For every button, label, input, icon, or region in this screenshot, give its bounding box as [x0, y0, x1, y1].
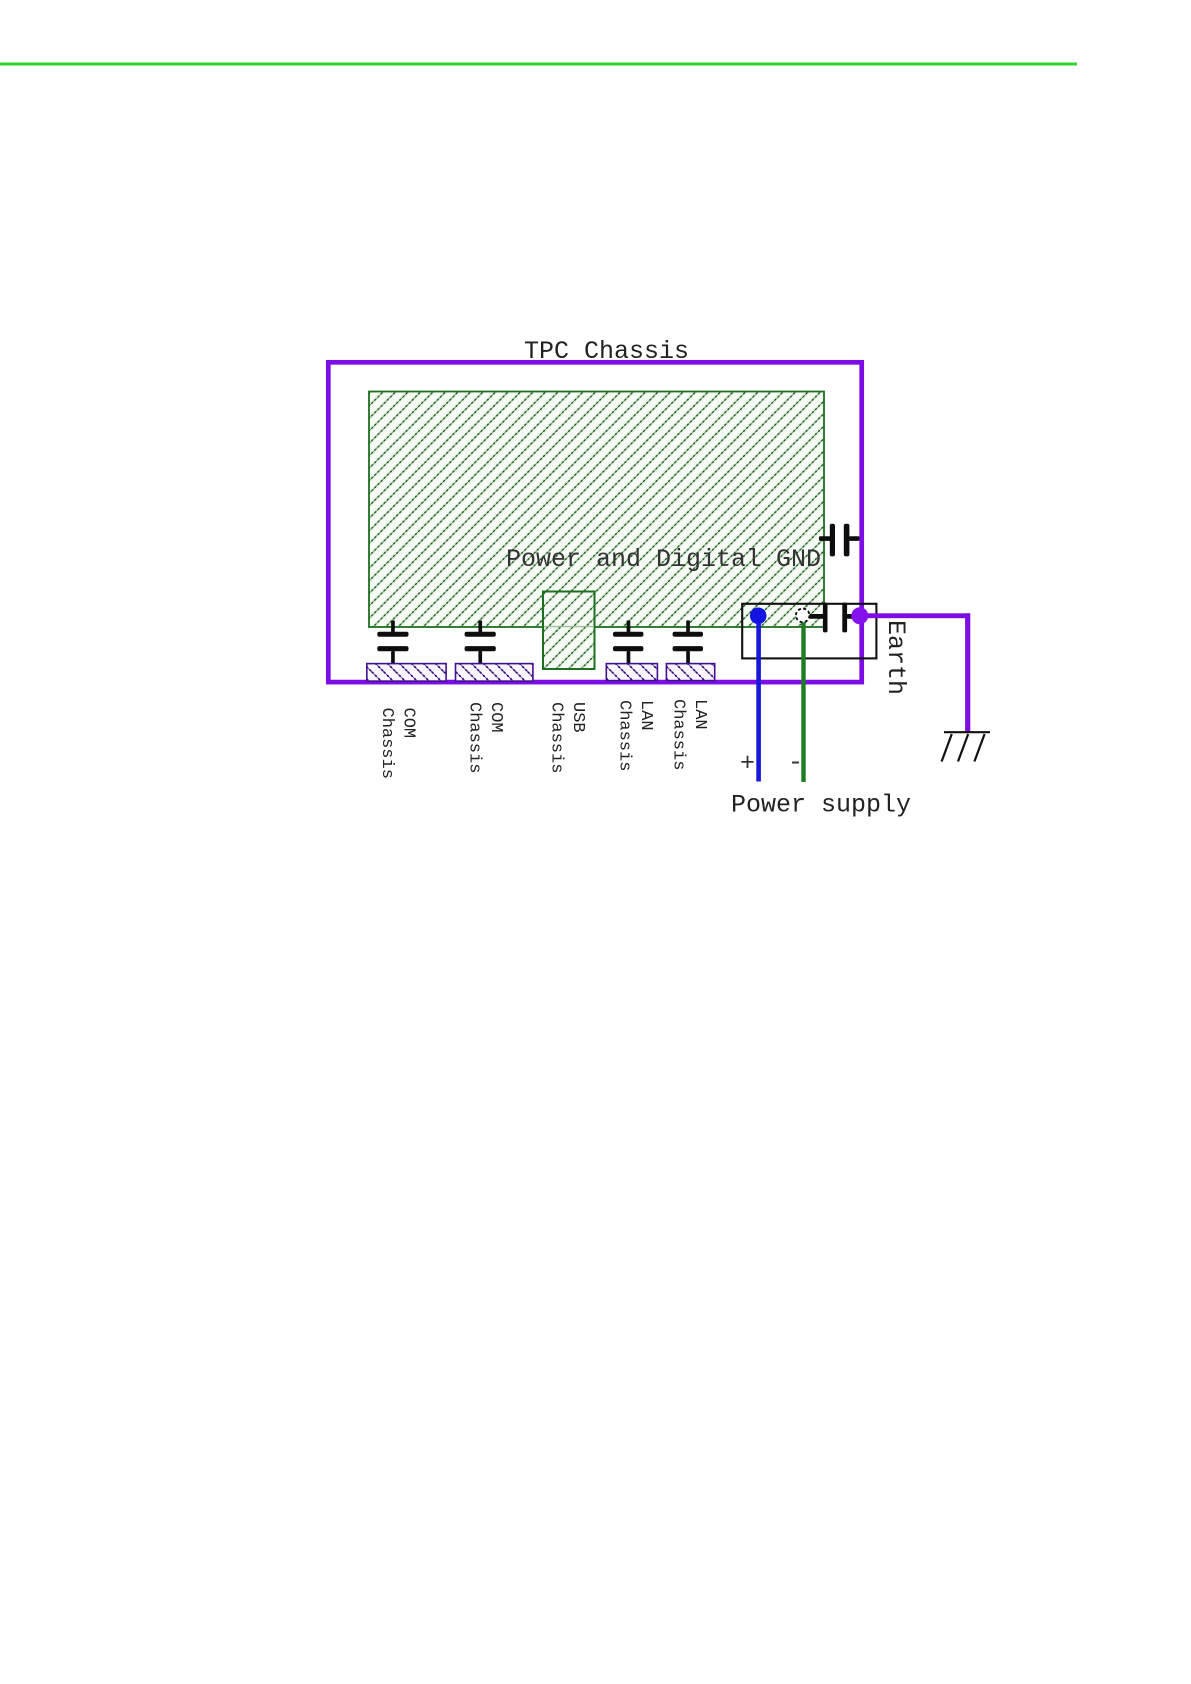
svg-text:Power supply: Power supply: [731, 791, 911, 820]
label: USB Chassis (rotated): [547, 702, 587, 773]
svg-text:Chassis: Chassis: [377, 708, 396, 779]
svg-text:Power and Digital GND: Power and Digital GND: [506, 545, 821, 574]
capacitor C1 (COM chassis): [377, 620, 408, 663]
svg-text:-: -: [788, 748, 803, 777]
wire: - supply (green): [801, 616, 805, 783]
svg-text:COM: COM: [399, 708, 418, 739]
USB chassis pad (green hatched block): [543, 592, 595, 670]
COM chassis pad 2 (purple hatched): [456, 664, 533, 682]
svg-text:LAN: LAN: [636, 700, 655, 731]
svg-text:COM: COM: [486, 702, 505, 733]
wire: earth (purple) horizontal: [859, 613, 970, 618]
capacitor C6 (inside junction box): [809, 603, 856, 633]
svg-text:Chassis: Chassis: [465, 702, 484, 773]
LAN chassis pad 3 (purple hatched): [606, 664, 657, 681]
faint plane bottom border crossing USB block: [544, 626, 594, 628]
node: - terminal (dashed circle): [796, 609, 810, 623]
capacitor C5 (GND plane to chassis, horizontal, upper right): [819, 524, 860, 557]
LAN chassis pad 4 (purple hatched): [666, 664, 714, 681]
svg-text:LAN: LAN: [690, 699, 709, 730]
svg-text:Earth: Earth: [881, 620, 910, 695]
capacitor C3 (LAN chassis): [613, 620, 643, 663]
node: earth junction (purple dot): [851, 607, 868, 624]
svg-text:Chassis: Chassis: [669, 699, 688, 770]
svg-text:Chassis: Chassis: [615, 700, 634, 771]
capacitor C4 (LAN chassis): [673, 620, 703, 663]
earth ground symbol: [942, 732, 990, 761]
node: + terminal (blue dot): [750, 608, 767, 625]
capacitor C2 (COM chassis): [465, 620, 496, 663]
svg-text:USB: USB: [568, 702, 587, 733]
top green horizontal rule: [0, 63, 1077, 66]
COM chassis pad 1 (purple hatched): [367, 664, 446, 682]
label: COM Chassis 1 (rotated): [377, 708, 417, 779]
svg-text:+: +: [740, 749, 755, 778]
wire: earth (purple) vertical: [965, 613, 970, 731]
power-supply junction box (black outline): [742, 604, 876, 659]
label: Earth (rotated): [881, 620, 910, 695]
wire: + supply (blue): [756, 615, 761, 782]
label: LAN Chassis 2 (rotated): [669, 699, 709, 770]
label: LAN Chassis 1 (rotated): [615, 700, 655, 771]
svg-text:Chassis: Chassis: [547, 702, 566, 773]
TPC chassis enclosure rectangle (purple): [328, 362, 861, 682]
label: COM Chassis 2 (rotated): [465, 702, 505, 773]
Power and Digital GND plane (green hatched region): [369, 392, 824, 628]
